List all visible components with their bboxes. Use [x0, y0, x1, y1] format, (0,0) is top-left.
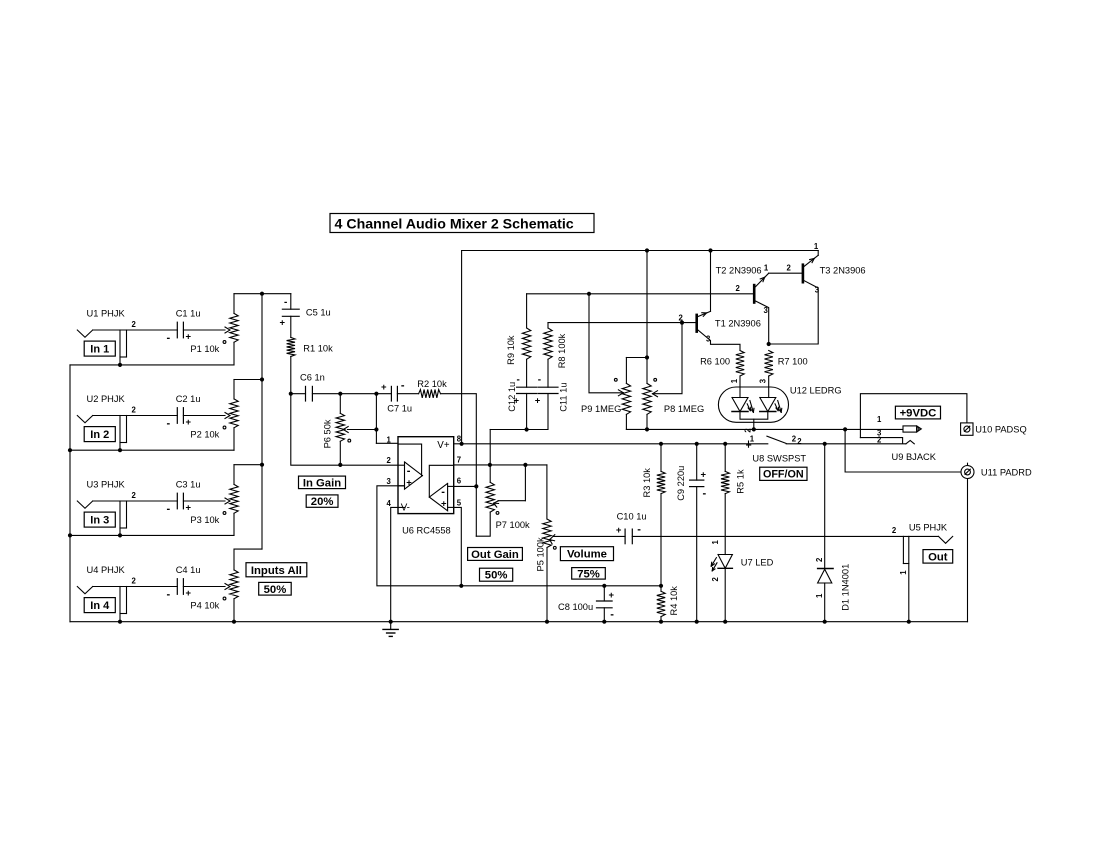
svg-text:75%: 75%	[577, 568, 600, 580]
wire: P3 bottom to channel ground rail	[70, 513, 234, 535]
svg-text:+: +	[186, 503, 192, 514]
svg-text:U10 PADSQ: U10 PADSQ	[975, 425, 1026, 435]
power label box +9VDC	[860, 394, 967, 438]
capacitor C11 1u	[490, 374, 568, 429]
label box Out Gain 50%	[468, 548, 523, 582]
dual LED U12 LEDRG	[718, 378, 841, 432]
potentiometer P9 1MEG	[581, 358, 631, 430]
svg-text:2: 2	[743, 428, 752, 433]
potentiometer P7 100k	[476, 430, 530, 537]
svg-text:U7 LED: U7 LED	[741, 557, 774, 567]
wire: left ground return bus	[68, 365, 72, 622]
svg-text:1: 1	[764, 264, 769, 273]
pad U11 PADRD	[961, 463, 1032, 478]
capacitor C2 1u	[167, 394, 201, 430]
svg-text:2: 2	[787, 264, 792, 273]
potentiometer P5 100k	[536, 519, 557, 624]
svg-text:C12 1u: C12 1u	[507, 382, 517, 412]
svg-text:3: 3	[815, 285, 820, 294]
resistor R4 10k	[657, 584, 679, 624]
svg-text:P3 10k: P3 10k	[190, 515, 219, 525]
output jack U5 PHJK with Out label	[892, 522, 953, 623]
svg-text:In Gain: In Gain	[303, 477, 341, 489]
svg-text:R8 100k: R8 100k	[557, 333, 567, 368]
svg-text:+: +	[381, 382, 387, 393]
svg-text:-: -	[637, 523, 641, 535]
svg-text:2: 2	[711, 577, 720, 582]
svg-text:50%: 50%	[264, 584, 287, 596]
svg-text:+: +	[535, 395, 541, 406]
transistor T3 2N3906	[769, 242, 866, 344]
svg-text:Inputs All: Inputs All	[251, 565, 302, 577]
svg-text:P4 10k: P4 10k	[190, 601, 219, 611]
resistor R1 10k	[287, 337, 334, 356]
transistor T2 2N3906	[716, 264, 771, 347]
svg-text:C9 220u: C9 220u	[676, 466, 686, 501]
svg-text:7: 7	[457, 456, 461, 465]
svg-text:3: 3	[764, 306, 769, 315]
ground symbol	[383, 622, 398, 637]
svg-text:1: 1	[730, 378, 739, 383]
input jack U2 PHJK with In 2 label	[77, 394, 177, 452]
wire: switched rail right segment to U9 tip contact	[786, 442, 906, 446]
svg-text:2: 2	[387, 456, 392, 465]
capacitor C8 100u	[558, 584, 615, 624]
svg-text:5: 5	[457, 498, 462, 507]
svg-text:C6 1n: C6 1n	[300, 372, 325, 382]
svg-text:P5 100k: P5 100k	[536, 537, 546, 571]
potentiometer P3 10k	[183, 484, 238, 525]
svg-text:T1 2N3906: T1 2N3906	[715, 319, 761, 329]
wire: T2 emitter to T3 base	[769, 264, 802, 274]
svg-text:C3 1u: C3 1u	[176, 479, 201, 489]
label box Volume 75%	[560, 547, 613, 581]
svg-text:-: -	[167, 589, 171, 601]
wire: pin 3 lead to bias node	[377, 486, 661, 586]
label box Inputs All 50%	[246, 563, 307, 596]
svg-text:3: 3	[387, 477, 392, 486]
wire: main ground bus	[70, 621, 968, 623]
svg-text:P1 10k: P1 10k	[190, 344, 219, 354]
svg-text:U11 PADRD: U11 PADRD	[981, 468, 1032, 478]
node: summing bus vertical	[261, 294, 263, 549]
input jack U4 PHJK with In 4 label	[77, 565, 177, 624]
svg-text:U9 BJACK: U9 BJACK	[892, 452, 937, 462]
battery jack U9 BJACK	[860, 415, 936, 462]
svg-text:U8 SWSPST: U8 SWSPST	[752, 453, 806, 463]
svg-text:R9 10k: R9 10k	[506, 335, 516, 365]
wire: R2 to op-amp pin 6 node	[441, 394, 479, 537]
wire: P1 top to summing bus	[234, 292, 291, 314]
svg-text:+: +	[616, 525, 622, 536]
svg-text:T3 2N3906: T3 2N3906	[820, 266, 866, 276]
input jack U3 PHJK with In 3 label	[77, 479, 177, 537]
op-amp U6 RC4558 dual package	[387, 435, 462, 536]
svg-text:U3 PHJK: U3 PHJK	[87, 479, 126, 489]
svg-text:+: +	[186, 332, 192, 343]
svg-text:2: 2	[132, 405, 137, 414]
svg-text:U5 PHJK: U5 PHJK	[909, 522, 948, 532]
capacitor C9 220u	[676, 444, 707, 624]
svg-text:2: 2	[132, 491, 137, 500]
svg-text:-: -	[610, 609, 614, 621]
wire: U9 pin 1 branch down to pad U11	[845, 429, 961, 472]
svg-text:In 1: In 1	[90, 344, 109, 356]
wire: P4 bottom to channel ground rail	[232, 599, 236, 624]
wire: P6 wiper junction riser to op-amp pin 1	[374, 392, 398, 444]
svg-text:+: +	[186, 417, 192, 428]
resistor R7 100	[765, 351, 808, 398]
svg-text:1: 1	[814, 242, 819, 251]
potentiometer P8 1MEG	[643, 358, 704, 432]
svg-text:2: 2	[797, 437, 802, 446]
svg-text:1: 1	[815, 593, 824, 598]
svg-text:20%: 20%	[311, 496, 334, 508]
title box: 4 Channel Audio Mixer 2 Schematic	[330, 214, 594, 233]
wire: top rail drop to P9/P8 tops	[626, 251, 649, 360]
wire: P9 wiper feed from T2 base rail	[589, 294, 623, 396]
wire: pin 8 V+ supply riser to top rail	[454, 251, 464, 446]
svg-text:2: 2	[132, 576, 137, 585]
svg-text:+: +	[280, 317, 286, 328]
svg-text:+: +	[441, 498, 447, 509]
label box In Gain 20%	[299, 476, 346, 508]
resistor R9 10k	[506, 294, 531, 387]
svg-text:4 Channel Audio Mixer 2 Schema: 4 Channel Audio Mixer 2 Schematic	[335, 216, 574, 232]
svg-text:R3 10k: R3 10k	[642, 468, 652, 498]
svg-text:6: 6	[457, 477, 462, 486]
capacitor C12 1u	[507, 374, 537, 431]
input jack U1 PHJK with In 1 label	[77, 308, 177, 367]
svg-text:T2 2N3906: T2 2N3906	[716, 266, 762, 276]
svg-text:R2 10k: R2 10k	[417, 379, 447, 389]
svg-text:R1 10k: R1 10k	[303, 344, 333, 354]
svg-text:Out Gain: Out Gain	[471, 549, 519, 561]
svg-text:1: 1	[750, 434, 755, 443]
capacitor C5 1u	[280, 294, 331, 338]
svg-text:Volume: Volume	[567, 549, 607, 561]
wire: P2 bottom to channel ground rail	[70, 428, 234, 450]
potentiometer P4 10k	[183, 570, 238, 611]
svg-text:2: 2	[132, 320, 137, 329]
resistor R8 100k	[544, 323, 567, 388]
svg-text:D1 1N4001: D1 1N4001	[840, 564, 850, 611]
svg-text:2: 2	[792, 435, 797, 444]
svg-text:OFF/ON: OFF/ON	[763, 469, 804, 481]
svg-text:50%: 50%	[485, 570, 508, 582]
svg-text:3: 3	[706, 335, 711, 344]
svg-text:C5 1u: C5 1u	[306, 308, 331, 318]
svg-text:U1 PHJK: U1 PHJK	[87, 308, 126, 318]
svg-text:R6 100: R6 100	[700, 356, 730, 366]
svg-text:U2 PHJK: U2 PHJK	[87, 394, 126, 404]
svg-text:1: 1	[877, 415, 882, 424]
potentiometer P6 50k	[323, 392, 377, 467]
diode D1 1N4001	[815, 444, 850, 624]
wire: U11 to ground bus right end	[967, 479, 969, 622]
svg-text:-: -	[538, 374, 541, 385]
capacitor C1 1u	[167, 308, 201, 344]
svg-text:+: +	[406, 478, 412, 489]
capacitor C4 1u	[167, 565, 201, 601]
wire: volume wiper to C10	[553, 535, 625, 537]
resistor R2 10k	[397, 379, 447, 398]
svg-text:P9 1MEG: P9 1MEG	[581, 404, 621, 414]
wire: T1 base rail	[548, 321, 696, 325]
switch U8 SWSPST	[747, 434, 807, 480]
svg-text:-: -	[401, 379, 405, 391]
wire: pin 5 lead to bias node	[454, 507, 464, 588]
svg-text:-: -	[167, 332, 171, 344]
potentiometer P1 10k	[183, 313, 238, 354]
wire: T2 base rail	[527, 292, 753, 296]
wire: C6 node down to op-amp pin 2	[291, 394, 405, 466]
svg-text:2: 2	[877, 435, 882, 444]
wire: pin 7 lead over to P5 volume	[454, 463, 547, 519]
svg-text:C2 1u: C2 1u	[176, 394, 201, 404]
svg-text:C8 100u: C8 100u	[558, 602, 593, 612]
capacitor C7 1u	[340, 379, 412, 413]
svg-text:3: 3	[759, 378, 768, 383]
svg-text:2: 2	[892, 526, 897, 535]
svg-text:+: +	[609, 590, 615, 601]
svg-text:-: -	[407, 465, 411, 477]
svg-text:R7 100: R7 100	[778, 356, 808, 366]
LED U7	[711, 540, 773, 624]
svg-text:+: +	[186, 588, 192, 599]
svg-text:+9VDC: +9VDC	[900, 408, 937, 420]
svg-text:2: 2	[679, 313, 684, 322]
wire: +9V switched rail	[462, 442, 768, 446]
resistor R5 1k	[721, 444, 746, 555]
svg-text:+: +	[701, 470, 707, 481]
svg-text:C4 1u: C4 1u	[176, 565, 201, 575]
svg-text:C7 1u: C7 1u	[387, 404, 412, 414]
svg-text:-: -	[703, 487, 707, 499]
capacitor C3 1u	[167, 479, 201, 515]
wire: P3 top to summing bus	[234, 463, 264, 485]
potentiometer P2 10k	[183, 399, 238, 440]
transistor T1 2N3906	[679, 251, 761, 351]
capacitor C6 1n	[291, 372, 341, 401]
svg-text:C1 1u: C1 1u	[176, 308, 201, 318]
svg-text:1: 1	[711, 540, 720, 545]
svg-text:P6 50k: P6 50k	[323, 419, 333, 448]
svg-text:In 2: In 2	[90, 429, 109, 441]
svg-text:In 4: In 4	[90, 600, 110, 612]
wire: pin 4 V- lead to ground bus	[389, 507, 405, 623]
svg-text:P2 10k: P2 10k	[190, 430, 219, 440]
wire: pin 6 lead	[454, 485, 477, 487]
wire: P9/P8 bottoms and LEDRG common to U9 pin 1	[626, 427, 903, 431]
pad U10 PADSQ	[961, 423, 1027, 435]
svg-text:U12 LEDRG: U12 LEDRG	[790, 386, 842, 396]
wire: summing bus jog down to P4 top	[234, 549, 262, 570]
svg-text:In 3: In 3	[90, 515, 109, 527]
svg-text:-: -	[517, 374, 520, 385]
svg-text:P8 1MEG: P8 1MEG	[664, 404, 704, 414]
wire: P2 top to summing bus	[234, 377, 264, 399]
svg-text:U6 RC4558: U6 RC4558	[402, 526, 451, 536]
svg-text:R5 1k: R5 1k	[736, 469, 746, 494]
wire: C10 to output jack U5	[632, 535, 938, 537]
capacitor C10 1u	[616, 511, 647, 543]
svg-text:Out: Out	[928, 551, 948, 563]
svg-text:P7 100k: P7 100k	[496, 520, 530, 530]
svg-text:2: 2	[815, 557, 824, 562]
wire: P8 wiper feed from T1 base rail	[653, 323, 683, 397]
svg-text:2: 2	[736, 284, 741, 293]
svg-text:-: -	[441, 486, 445, 498]
svg-text:1: 1	[387, 435, 392, 444]
svg-text:U4 PHJK: U4 PHJK	[87, 565, 126, 575]
resistor R6 100	[700, 351, 744, 398]
resistor R3 10k	[642, 444, 665, 586]
svg-text:C10 1u: C10 1u	[617, 511, 647, 521]
svg-text:V+: V+	[437, 440, 450, 451]
wire: P1 bottom to channel ground rail	[70, 342, 234, 365]
svg-text:C11 1u: C11 1u	[558, 383, 568, 412]
svg-text:-: -	[167, 418, 171, 430]
svg-text:R4 10k: R4 10k	[669, 586, 679, 616]
wire: +9V top rail	[462, 248, 819, 252]
wire: R1 bottom to C6 node	[289, 357, 293, 396]
svg-text:-: -	[284, 297, 287, 308]
svg-text:-: -	[167, 503, 171, 515]
svg-text:1: 1	[899, 570, 908, 575]
